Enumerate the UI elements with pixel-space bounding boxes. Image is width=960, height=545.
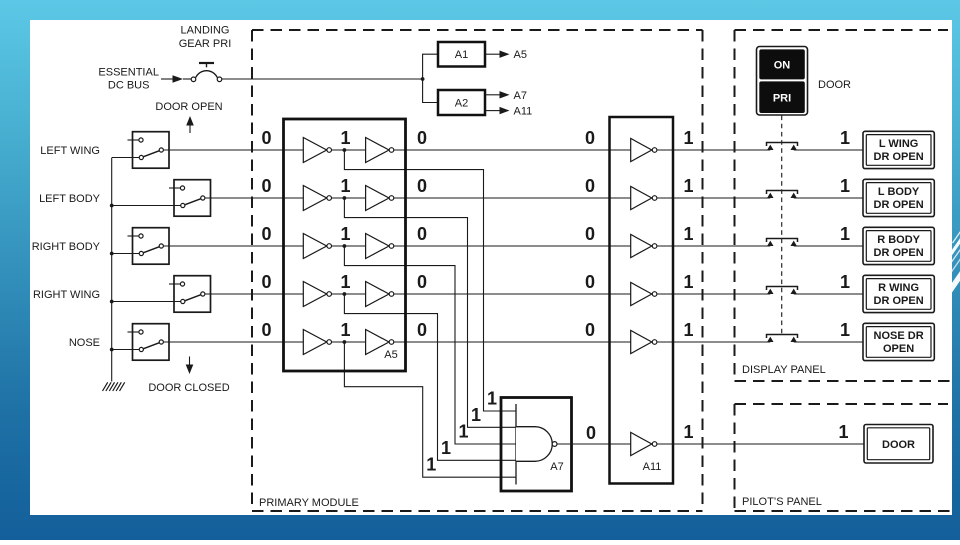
svg-text:A11: A11 <box>643 461 662 473</box>
wire contact to indicator row 2 <box>794 197 863 199</box>
switch S1 LEFT WING <box>128 132 170 169</box>
junction bus row 2 <box>110 204 114 208</box>
svg-text:A5: A5 <box>514 49 527 61</box>
wire junction row 4 to A7 input <box>344 294 516 460</box>
inverter row 3 second <box>366 234 394 259</box>
wire switch S1 output to A5 <box>163 149 303 151</box>
svg-text:0: 0 <box>417 272 427 292</box>
svg-text:0: 0 <box>585 128 595 148</box>
svg-text:LANDING: LANDING <box>181 25 230 37</box>
svg-text:NOSE: NOSE <box>69 337 100 349</box>
arrow door closed (down) <box>186 357 194 375</box>
label ESSENTIAL DC BUS <box>98 67 159 92</box>
box A1 <box>438 42 485 67</box>
svg-text:1: 1 <box>840 272 850 292</box>
gate block A11 <box>610 117 674 484</box>
svg-text:1: 1 <box>683 176 693 196</box>
svg-text:DC BUS: DC BUS <box>108 80 150 92</box>
wire bus to switch S4 <box>112 301 181 303</box>
wire DC bus to A1/A2 junction <box>222 78 423 80</box>
inverter A11 row 2 <box>631 186 657 209</box>
svg-text:DOOR: DOOR <box>818 79 851 91</box>
wire contact to indicator row 1 <box>794 149 863 151</box>
arrow A2 to A7 <box>486 91 510 98</box>
svg-text:LEFT BODY: LEFT BODY <box>39 193 101 205</box>
wire switch S2 output to A5 <box>205 197 303 199</box>
svg-text:DR OPEN: DR OPEN <box>874 199 924 211</box>
svg-text:1: 1 <box>683 320 693 340</box>
svg-text:L WING: L WING <box>879 138 919 150</box>
junction bus row 4 <box>110 300 114 304</box>
inverter row 5 first <box>303 330 331 355</box>
label LANDING GEAR PRI <box>179 25 232 51</box>
wire A11 out row 3 <box>657 245 770 247</box>
svg-text:R WING: R WING <box>878 282 919 294</box>
junction bus row 5 <box>110 348 114 352</box>
junction node row 4 <box>343 292 347 296</box>
junction DC bus branch <box>421 77 425 81</box>
wire junction row 1 to A7 input <box>344 150 516 411</box>
inverter A11 row 4 <box>631 282 657 305</box>
junction node row 1 <box>343 148 347 152</box>
svg-text:DR OPEN: DR OPEN <box>874 151 924 163</box>
wire to A2 <box>423 79 438 103</box>
gate block A5 <box>284 119 406 371</box>
dashed box PILOT&#39;S PANEL <box>735 404 951 511</box>
indicator L BODY DR OPEN <box>863 179 934 216</box>
svg-text:0: 0 <box>261 176 271 196</box>
svg-text:0: 0 <box>261 128 271 148</box>
inverter row 1 second <box>366 138 394 163</box>
input bar A7 <box>515 404 517 485</box>
dashed box PRIMARY MODULE <box>252 30 703 511</box>
wire A11 out row 5 <box>657 341 770 343</box>
wire junction row 5 to A7 input <box>344 342 516 477</box>
pushbutton ON/PRI <box>757 47 808 116</box>
relay contact row 1 <box>767 143 798 151</box>
svg-text:0: 0 <box>586 423 596 443</box>
junction node row 5 <box>343 340 347 344</box>
svg-text:1: 1 <box>340 272 350 292</box>
junction bus row 3 <box>110 252 114 256</box>
inverter row 4 second <box>366 282 394 307</box>
wire A5 out to A11 row 5 <box>394 341 631 343</box>
decorative stripes right edge <box>946 228 960 297</box>
wire bus to switch S2 <box>112 205 181 207</box>
svg-text:0: 0 <box>585 176 595 196</box>
svg-text:0: 0 <box>261 272 271 292</box>
wire A11 out row 1 <box>657 149 770 151</box>
wire A11 out row 2 <box>657 197 770 199</box>
svg-text:0: 0 <box>417 224 427 244</box>
dashed box DISPLAY PANEL <box>735 30 951 381</box>
svg-text:DISPLAY PANEL: DISPLAY PANEL <box>742 364 826 376</box>
wire inter-gate row 3 <box>332 245 366 247</box>
inverter A11 row 3 <box>631 234 657 257</box>
wire A11 out row 4 <box>657 293 770 295</box>
inverter row 2 first <box>303 186 331 211</box>
svg-text:1: 1 <box>840 320 850 340</box>
dashed mechanical link <box>781 116 783 335</box>
svg-text:DR OPEN: DR OPEN <box>874 247 924 259</box>
svg-text:1: 1 <box>340 128 350 148</box>
wire DC bus feed <box>161 78 173 80</box>
svg-text:1: 1 <box>471 405 481 425</box>
wire to A1 <box>423 54 438 79</box>
svg-text:A5: A5 <box>384 349 397 361</box>
svg-text:LEFT WING: LEFT WING <box>40 145 100 157</box>
inverter row 1 first <box>303 138 331 163</box>
svg-text:A11: A11 <box>514 106 533 118</box>
svg-text:1: 1 <box>340 224 350 244</box>
svg-text:ESSENTIAL: ESSENTIAL <box>98 67 159 79</box>
svg-text:1: 1 <box>487 389 497 409</box>
wire A5 out to A11 row 2 <box>394 197 631 199</box>
svg-text:L BODY: L BODY <box>878 186 920 198</box>
indicator DOOR <box>864 425 933 464</box>
wire switch S4 output to A5 <box>205 293 303 295</box>
wire A7 out to A11 <box>557 443 631 445</box>
svg-text:RIGHT BODY: RIGHT BODY <box>32 241 101 253</box>
wire inter-gate row 5 <box>332 341 366 343</box>
svg-text:1: 1 <box>683 224 693 244</box>
junction node row 2 <box>343 196 347 200</box>
svg-text:DOOR OPEN: DOOR OPEN <box>155 101 222 113</box>
relay contact row 5 <box>767 335 798 343</box>
wire bus to switch S1 <box>112 157 140 159</box>
svg-text:1: 1 <box>340 320 350 340</box>
wire inter-gate row 2 <box>332 197 366 199</box>
svg-text:0: 0 <box>261 320 271 340</box>
switch S2 LEFT BODY <box>169 180 211 217</box>
svg-text:1: 1 <box>840 224 850 244</box>
junction node row 3 <box>343 244 347 248</box>
ground <box>103 382 125 391</box>
wire A5 out to A11 row 4 <box>394 293 631 295</box>
svg-text:PRI: PRI <box>773 93 791 105</box>
svg-text:PRIMARY MODULE: PRIMARY MODULE <box>259 497 359 509</box>
relay contact row 4 <box>767 287 798 295</box>
inverter A11 row 1 <box>631 138 657 161</box>
svg-text:PILOT’S PANEL: PILOT’S PANEL <box>742 496 822 508</box>
wire door row to pilot panel <box>657 443 864 445</box>
wire bus to switch S5 <box>112 349 140 351</box>
svg-text:0: 0 <box>585 272 595 292</box>
svg-text:1: 1 <box>441 438 451 458</box>
svg-text:1: 1 <box>458 422 468 442</box>
svg-text:A1: A1 <box>455 49 468 61</box>
arrow A2 to A11 <box>486 107 510 114</box>
wire contact to indicator row 5 <box>794 341 863 343</box>
switch S3 RIGHT BODY <box>128 228 170 265</box>
wire contact to indicator row 4 <box>794 293 863 295</box>
arrow A1 to A5 <box>486 51 510 58</box>
wire A5 out to A11 row 3 <box>394 245 631 247</box>
svg-text:DOOR: DOOR <box>882 439 915 451</box>
switch S5 NOSE <box>128 324 170 361</box>
wire junction row 2 to A7 input <box>344 198 516 427</box>
inverter A11 door row <box>631 432 657 455</box>
svg-text:GEAR PRI: GEAR PRI <box>179 38 232 50</box>
svg-text:ON: ON <box>774 59 791 71</box>
inverter row 4 first <box>303 282 331 307</box>
wire switch S3 output to A5 <box>163 245 303 247</box>
svg-text:NOSE DR: NOSE DR <box>874 330 924 342</box>
inverter row 5 second <box>366 330 394 355</box>
svg-text:0: 0 <box>417 176 427 196</box>
svg-text:DOOR CLOSED: DOOR CLOSED <box>148 382 229 394</box>
relay contact row 3 <box>767 239 798 247</box>
svg-text:A7: A7 <box>550 461 563 473</box>
svg-text:RIGHT WING: RIGHT WING <box>33 289 100 301</box>
svg-text:R BODY: R BODY <box>877 234 920 246</box>
wire inter-gate row 4 <box>332 293 366 295</box>
switch landing gear pri <box>183 63 222 82</box>
inverter row 2 second <box>366 186 394 211</box>
svg-text:1: 1 <box>426 455 436 475</box>
wire bus to switch S3 <box>112 253 140 255</box>
arrow door open (up) <box>186 116 194 133</box>
wire A5 out to A11 row 1 <box>394 149 631 151</box>
svg-text:OPEN: OPEN <box>883 343 914 355</box>
svg-text:0: 0 <box>585 320 595 340</box>
gate block A7 <box>501 398 572 492</box>
svg-text:1: 1 <box>340 176 350 196</box>
wire left bus vertical <box>111 158 113 382</box>
svg-text:1: 1 <box>683 422 693 442</box>
svg-text:1: 1 <box>683 272 693 292</box>
svg-text:0: 0 <box>417 320 427 340</box>
indicator R BODY DR OPEN <box>863 227 934 264</box>
wire inter-gate row 1 <box>332 149 366 151</box>
relay contact row 2 <box>767 191 798 199</box>
wire switch S5 output to A5 <box>163 341 303 343</box>
svg-text:1: 1 <box>683 128 693 148</box>
indicator NOSE DR OPEN <box>863 323 934 360</box>
wire contact to indicator row 3 <box>794 245 863 247</box>
svg-text:A2: A2 <box>455 98 468 110</box>
switch S4 RIGHT WING <box>169 276 211 313</box>
svg-text:1: 1 <box>838 422 848 442</box>
wire junction row 3 to A7 input <box>344 246 516 444</box>
box A2 <box>438 90 485 115</box>
svg-text:DR OPEN: DR OPEN <box>874 295 924 307</box>
svg-text:A7: A7 <box>514 90 527 102</box>
svg-text:1: 1 <box>840 176 850 196</box>
indicator R WING DR OPEN <box>863 275 934 312</box>
inverter row 3 first <box>303 234 331 259</box>
svg-text:0: 0 <box>585 224 595 244</box>
nand gate A7 <box>516 427 552 462</box>
arrow DC bus <box>173 75 184 82</box>
svg-text:0: 0 <box>417 128 427 148</box>
svg-text:0: 0 <box>261 224 271 244</box>
indicator L WING DR OPEN <box>863 131 934 168</box>
inverter A11 row 5 <box>631 330 657 353</box>
svg-text:1: 1 <box>840 128 850 148</box>
